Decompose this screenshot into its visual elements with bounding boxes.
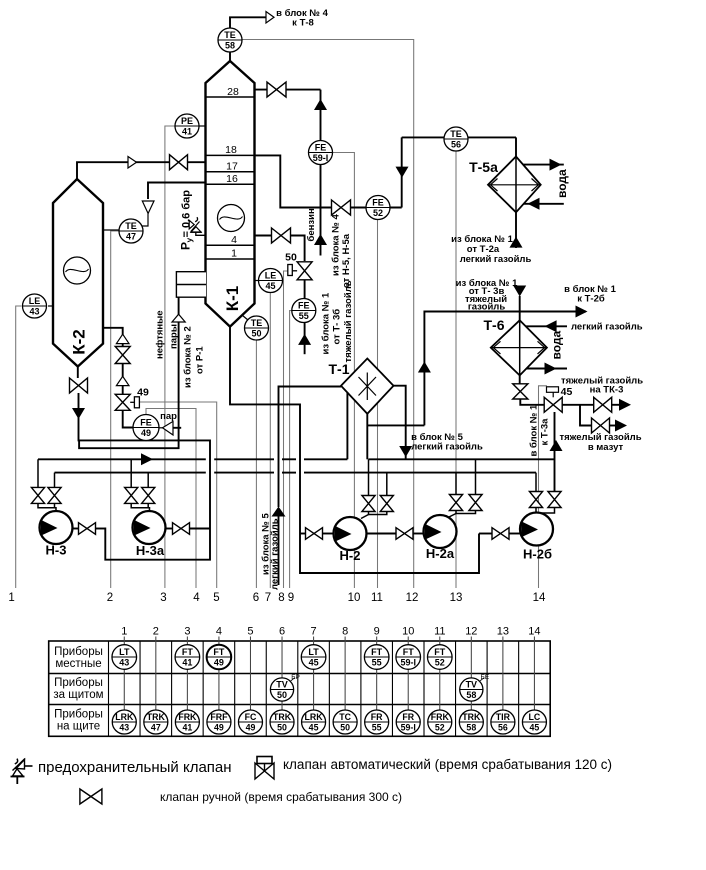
svg-text:FT: FT — [213, 647, 224, 657]
check valve on K-2 overhead line — [128, 157, 137, 169]
wire TE-56 line down to T-5a — [515, 137, 517, 156]
wire H-3 discharge with valve — [73, 528, 79, 530]
svg-text:LE: LE — [29, 296, 41, 306]
svg-text:18: 18 — [225, 144, 237, 156]
svg-text:FE: FE — [372, 197, 384, 207]
wire T-5a water in stub — [524, 203, 564, 205]
svg-text:FT: FT — [434, 647, 445, 657]
wire signal line 6 from TE-50 to table col 6 — [255, 340, 257, 588]
K-1 tray 4 line — [206, 244, 255, 246]
svg-text:6: 6 — [279, 626, 285, 638]
wire H-3a suction valves risers — [130, 459, 132, 487]
svg-text:58: 58 — [466, 690, 476, 700]
svg-text:TV: TV — [276, 679, 288, 689]
svg-text:TE: TE — [224, 30, 236, 40]
svg-text:FR: FR — [402, 712, 414, 722]
svg-text:ЕЕ: ЕЕ — [480, 674, 489, 681]
wire tray-18 side draw to FE-52 line — [255, 155, 402, 207]
valve 50 actuator — [288, 265, 293, 276]
svg-text:50: 50 — [285, 252, 297, 264]
svg-text:43: 43 — [119, 658, 129, 668]
svg-text:LRK: LRK — [305, 712, 324, 722]
wire H-2 right valve riser — [386, 473, 388, 496]
valve on TK-3 branch — [594, 397, 612, 412]
svg-text:FC: FC — [245, 712, 257, 722]
svg-text:бензин: бензин — [306, 208, 317, 241]
svg-text:предохранительный клапан: предохранительный клапан — [38, 759, 232, 776]
svg-text:клапан автоматический (время с: клапан автоматический (время срабатывани… — [283, 757, 612, 772]
svg-text:FE: FE — [298, 300, 310, 310]
valve above H-3 left — [31, 487, 44, 503]
wire H-3 suction valves risers — [37, 459, 39, 487]
svg-text:28: 28 — [227, 86, 239, 98]
svg-text:47: 47 — [151, 723, 161, 733]
arrow left water in T-5a — [528, 198, 540, 210]
svg-text:41: 41 — [182, 127, 192, 137]
wire check valve to TE-47 — [140, 214, 148, 227]
check valve up 1 on chain — [116, 334, 129, 343]
svg-text:к Т-2б: к Т-2б — [577, 294, 605, 305]
valve above H-3a right — [142, 487, 155, 503]
valve on mazut branch — [592, 418, 610, 433]
wire TE-56 horizontal line — [402, 136, 516, 138]
svg-text:Т-6: Т-6 — [484, 317, 505, 333]
pump H-2a — [424, 515, 457, 548]
svg-text:14: 14 — [533, 592, 546, 604]
instrument FE-49 — [133, 415, 159, 441]
pump H-2b — [520, 513, 553, 546]
wire mazut branch — [580, 405, 591, 426]
wire K-2 overhead to K-1 tray17 — [77, 162, 206, 179]
svg-text:11: 11 — [434, 626, 445, 638]
svg-text:16: 16 — [226, 173, 238, 185]
wire T-5a water out stub — [524, 164, 564, 166]
svg-text:8: 8 — [342, 626, 348, 638]
arrow down on K-2 bottoms — [72, 408, 85, 419]
arrow up on benzin riser (top) — [314, 99, 327, 110]
legend automatic valve symbol — [255, 763, 274, 779]
valve on chain — [115, 347, 130, 364]
K-1 safety valve symbol — [196, 232, 206, 235]
heat exchanger T-5a — [488, 157, 541, 213]
svg-text:1: 1 — [231, 248, 237, 260]
wire H-3a discharge to junction — [190, 528, 211, 530]
svg-text:тяжелый газойль: тяжелый газойль — [343, 280, 354, 362]
svg-text:местные: местные — [55, 658, 101, 670]
valve on tray-28 line — [267, 82, 286, 97]
svg-text:50: 50 — [340, 723, 350, 733]
svg-text:к Т-3а: к Т-3а — [540, 418, 551, 446]
svg-text:5: 5 — [213, 592, 219, 604]
valve right of H-3 — [79, 523, 96, 535]
wire H-2b discharge riser to valve 45 — [554, 412, 556, 492]
svg-text:TE: TE — [125, 221, 137, 231]
wire T-6 water in stub — [526, 325, 567, 327]
table instrument bubbles row 3 — [112, 710, 136, 734]
wire valve 49 to FE-49 — [123, 410, 133, 427]
svg-text:45: 45 — [530, 723, 540, 733]
svg-text:56: 56 — [498, 723, 508, 733]
svg-text:пары: пары — [169, 324, 180, 349]
svg-text:к Т-8: к Т-8 — [292, 18, 314, 29]
wire right header 1 — [369, 458, 556, 460]
wire K-2 bottoms to pump suction header — [79, 393, 211, 560]
wire riser to T-6 junction — [424, 312, 586, 426]
svg-text:LE: LE — [265, 270, 277, 280]
arrow export to block 4 (hollow) — [266, 12, 274, 24]
wire signal line 10 from FE-59-I to table col 10 — [333, 153, 354, 589]
wire signal line 13 from TE-56 to table col 13 — [455, 152, 457, 589]
valve on K-2 bottoms — [70, 378, 88, 393]
svg-text:легкий газойль: легкий газойль — [270, 518, 281, 590]
table instrument bubbles row 2 — [270, 678, 293, 701]
wire riser from TE-56 line down to FE-52 line — [401, 137, 403, 207]
arrow left water in T-6 — [545, 320, 557, 332]
check valve down on TE-47 branch — [142, 201, 154, 214]
svg-text:Т-5а: Т-5а — [469, 159, 498, 175]
wire valve to valve 45 junction — [520, 399, 544, 405]
svg-text:TIR: TIR — [496, 712, 511, 722]
arrow right water out T-5a — [550, 159, 562, 171]
wire T-1 right vertex to down-leg — [394, 386, 406, 450]
valve right of H-3a — [173, 523, 190, 535]
wire H-3a discharge with valve — [166, 528, 173, 530]
svg-text:Приборы: Приборы — [54, 646, 103, 658]
svg-text:55: 55 — [299, 311, 309, 321]
arrow down on riser to FE-52 — [396, 167, 409, 178]
svg-text:LT: LT — [119, 647, 130, 657]
column K-1 shell — [206, 61, 255, 327]
instrument TE-50 — [242, 315, 249, 321]
instrument LE-45 — [255, 280, 259, 282]
valve above H-3 right — [48, 487, 61, 503]
valve above H-2a left — [449, 495, 462, 511]
wire K-1 overhead to TE-58 and export — [230, 17, 266, 61]
svg-text:TV: TV — [466, 679, 478, 689]
wire signal line 9 from FE-55 to table col 9 — [290, 311, 292, 589]
wire T-6 bottom to valve — [519, 375, 521, 384]
svg-text:45: 45 — [561, 386, 573, 398]
wire H-2a valve manifold — [456, 511, 476, 514]
svg-text:за щитом: за щитом — [53, 689, 103, 701]
valve left of H-2b — [492, 528, 509, 540]
wire signal line 7 from LE-45 to table col 7 — [269, 293, 271, 588]
check valve up 2 on chain — [116, 376, 129, 385]
svg-text:К-1: К-1 — [223, 286, 242, 312]
K-1 tray 1 line — [206, 258, 255, 260]
svg-text:на щите: на щите — [57, 721, 100, 733]
wire H-3a valve manifold — [131, 503, 149, 511]
legend manual valve symbol — [80, 789, 102, 804]
svg-text:56: 56 — [451, 140, 461, 150]
svg-text:FR: FR — [371, 712, 383, 722]
wire K-2 shell to valve chain — [103, 328, 123, 335]
wire right header1 corner to H-2 left valve riser — [368, 459, 370, 495]
valve on tray4 feed — [272, 228, 291, 243]
wire T-1 lower-left edge to left header — [346, 392, 348, 459]
wire import from T-3v into T-6 top — [519, 296, 521, 320]
svg-text:TRK: TRK — [462, 712, 481, 722]
svg-text:К-2: К-2 — [70, 329, 89, 355]
svg-text:10: 10 — [348, 592, 361, 604]
check arrow hollow up on feed riser — [172, 314, 185, 322]
svg-text:FT: FT — [182, 647, 193, 657]
svg-text:3: 3 — [184, 626, 190, 638]
instrument FE-59-I — [309, 141, 333, 165]
wire K-2 bottoms line down — [77, 367, 79, 379]
svg-text:FE: FE — [315, 142, 327, 152]
svg-text:Приборы: Приборы — [54, 677, 103, 689]
wire H-2b suction valve risers — [535, 473, 537, 492]
wire K-1 tray4 feed line with valve — [255, 236, 305, 262]
svg-text:12: 12 — [465, 626, 477, 638]
svg-text:52: 52 — [435, 723, 445, 733]
svg-text:52: 52 — [435, 658, 445, 668]
wire chain segment 2 — [122, 364, 124, 377]
svg-text:9: 9 — [288, 592, 294, 604]
svg-text:55: 55 — [372, 658, 382, 668]
wire benzin riser — [320, 90, 322, 256]
valve above H-3a left — [125, 487, 138, 503]
wire neftyanye pary feed riser — [178, 297, 180, 314]
svg-text:LC: LC — [529, 712, 541, 722]
instrument FE-52 — [366, 196, 390, 220]
wire left header 2 — [55, 472, 206, 474]
svg-text:49: 49 — [246, 723, 256, 733]
arrow up into T-5a bottom — [510, 237, 523, 248]
svg-text:легкий газойль: легкий газойль — [460, 254, 532, 265]
svg-text:FRK: FRK — [178, 712, 197, 722]
valve below T-6 (vertical) — [513, 384, 528, 399]
svg-text:58: 58 — [225, 41, 235, 51]
K-1 stripping box on left side — [176, 272, 206, 298]
arrow right to TK-3 — [612, 404, 620, 406]
svg-text:49: 49 — [137, 387, 149, 399]
svg-text:из блока № 4: из блока № 4 — [331, 214, 342, 276]
wire signal line 8 from valve 50 actuator to table col 8 — [284, 271, 288, 588]
svg-text:вода: вода — [550, 330, 564, 359]
svg-text:8: 8 — [278, 592, 284, 604]
svg-text:на ТК-3: на ТК-3 — [590, 385, 624, 396]
wire signal line 4 from FE-49 to table col 4 — [146, 409, 196, 589]
svg-text:1: 1 — [8, 592, 14, 604]
svg-text:12: 12 — [406, 592, 419, 604]
svg-text:45: 45 — [309, 723, 319, 733]
K-1 tray 28 line — [206, 96, 255, 98]
svg-text:легкий газойль: легкий газойль — [411, 442, 483, 453]
wire left header 1 — [38, 458, 206, 460]
wire T-5a bottom feed — [515, 212, 517, 248]
svg-text:FRF: FRF — [210, 712, 228, 722]
svg-text:FT: FT — [403, 647, 414, 657]
svg-text:43: 43 — [29, 307, 39, 317]
svg-text:FE: FE — [140, 417, 152, 427]
wire chain segment 3 — [122, 386, 124, 395]
svg-text:газойль: газойль — [468, 302, 506, 313]
svg-text:58: 58 — [466, 723, 476, 733]
svg-text:41: 41 — [182, 723, 192, 733]
svg-text:45: 45 — [309, 658, 319, 668]
valve above H-2a right — [469, 495, 482, 511]
svg-text:7: 7 — [311, 626, 317, 638]
wire signal line 2 from TE-47 to table col 2 — [111, 231, 119, 588]
arrow right on left header 1 — [141, 453, 153, 465]
svg-text:59-I: 59-I — [401, 723, 416, 733]
svg-text:41: 41 — [182, 658, 192, 668]
wire K-1 bottoms to right pump train — [230, 327, 479, 573]
wire H-3 discharge elbow — [96, 528, 106, 530]
svg-text:от Р-1: от Р-1 — [195, 346, 206, 374]
svg-text:FT: FT — [371, 647, 382, 657]
svg-text:47: 47 — [126, 232, 136, 242]
svg-text:13: 13 — [450, 592, 463, 604]
arrow right water out T-6 — [545, 363, 557, 375]
instrument FE-55 — [292, 299, 316, 323]
svg-text:2: 2 — [153, 626, 159, 638]
svg-text:7: 7 — [265, 592, 271, 604]
wire H-2b valve manifold — [536, 508, 555, 514]
wire chain segment — [122, 344, 124, 348]
valve above H-2 left — [362, 496, 375, 512]
valve 49 actuator — [130, 401, 134, 403]
svg-text:Н-2: Н-2 — [340, 548, 361, 563]
svg-text:клапан ручной (время срабатыва: клапан ручной (время срабатывания 300 с) — [160, 790, 402, 804]
svg-text:50: 50 — [277, 723, 287, 733]
svg-text:РЕ: РЕ — [181, 116, 193, 126]
column K-2 shell — [53, 179, 103, 367]
table column borders — [108, 641, 110, 736]
svg-text:9: 9 — [374, 626, 380, 638]
valve above H-2b right — [548, 492, 561, 508]
svg-text:49: 49 — [214, 723, 224, 733]
wire valve45 to TK-3 branch — [562, 404, 594, 406]
svg-text:43: 43 — [119, 723, 129, 733]
svg-text:59-I: 59-I — [313, 153, 329, 163]
wire feed riser lower part — [79, 322, 179, 448]
wire signal line 14 from valve 45 actuator to table col 14 — [539, 386, 548, 588]
svg-text:2: 2 — [107, 592, 113, 604]
svg-text:4: 4 — [216, 626, 222, 638]
svg-text:из блока № 2: из блока № 2 — [183, 326, 194, 388]
wire H-2b feed valve line — [479, 533, 492, 535]
svg-text:вода: вода — [555, 169, 569, 198]
arrow up on benzin riser (bottom) — [314, 234, 327, 245]
instrument TE-47 — [119, 219, 143, 243]
svg-text:от Т- 3б: от Т- 3б — [332, 309, 343, 345]
arrow down to block 5 header — [399, 446, 412, 457]
svg-text:1: 1 — [121, 626, 127, 638]
wire signal line 11 from FE-52 to table col 11 — [377, 220, 379, 588]
svg-text:5: 5 — [247, 626, 253, 638]
svg-text:TC: TC — [339, 712, 351, 722]
arrow right to mazut — [610, 425, 617, 427]
wire H-2 to H-2a with valve — [367, 533, 396, 535]
table instrument bubbles row 1 — [112, 645, 137, 670]
svg-text:14: 14 — [528, 626, 540, 638]
svg-text:49: 49 — [214, 658, 224, 668]
wire FE-55 source stub — [304, 323, 306, 355]
pump H-2 — [334, 517, 367, 550]
instrument TE-58 — [218, 28, 242, 52]
svg-text:TRK: TRK — [147, 712, 166, 722]
wire steam stub with hollow arrow — [172, 427, 181, 429]
svg-text:45: 45 — [265, 281, 275, 291]
svg-text:59-I: 59-I — [400, 658, 416, 668]
valve left of H-2 — [306, 528, 323, 540]
K-1 tray 17 line — [206, 171, 255, 173]
wire signal line 5 from valve 49 actuator to table col 5 — [140, 402, 217, 588]
K-2 internal circulation symbol — [64, 257, 91, 284]
instrument PE-41 — [199, 125, 206, 127]
svg-text:нефтяные: нефтяные — [155, 310, 166, 359]
table cell signal lines — [123, 641, 125, 645]
wire second feed into K-1 tray16 slot — [148, 183, 206, 200]
valve 49 (automatic) on chain — [115, 394, 130, 410]
svg-text:4: 4 — [193, 592, 200, 604]
svg-text:легкий газойль: легкий газойль — [571, 322, 643, 333]
arrow up on FE-55 line — [298, 334, 311, 345]
instrument TE-56 — [444, 127, 468, 151]
svg-text:пар: пар — [160, 411, 177, 422]
arrow up on mazut riser — [550, 440, 563, 451]
pump H-3a — [133, 511, 166, 544]
svg-text:LRK: LRK — [115, 712, 134, 722]
legend safety valve symbol — [16, 760, 24, 770]
svg-text:TRK: TRK — [273, 712, 292, 722]
wire signal line 1 from LE-43 to table col 1 — [16, 306, 22, 588]
K-1 tray 16 line — [206, 183, 255, 185]
svg-text:Н-3а: Н-3а — [136, 543, 165, 558]
wire T-1 outlet cross link — [367, 424, 424, 426]
table frame — [49, 641, 551, 736]
valve 50 (vertical, automatic) — [297, 262, 312, 280]
svg-text:от Н-5, Н-5а: от Н-5, Н-5а — [341, 233, 352, 288]
valve between H-2 and H-2a — [396, 528, 413, 540]
svg-text:50: 50 — [277, 690, 287, 700]
wire legkiy gazoil from block 5 riser to T-1 — [279, 387, 342, 508]
valve 45 with actuator — [544, 397, 562, 412]
wire signal line 12 from TE-58 to table col 12 — [242, 40, 414, 589]
valve on FE-52 line — [332, 200, 351, 215]
svg-text:в блок № 1: в блок № 1 — [529, 404, 540, 456]
heat exchanger T-6 — [491, 320, 547, 375]
svg-text:17: 17 — [226, 161, 238, 173]
arrow up on riser to T-6 — [418, 362, 431, 373]
wire signal line 3 from PE-41 to table col 3 — [165, 126, 175, 588]
svg-text:50: 50 — [251, 329, 261, 339]
valve above H-2b left — [529, 492, 542, 508]
svg-text:52: 52 — [373, 208, 383, 218]
wire H-2a suction valve risers — [455, 473, 457, 495]
svg-text:LT: LT — [308, 647, 319, 657]
svg-text:= 0.6 бар: = 0.6 бар — [181, 190, 193, 238]
wire H-2 valve manifold — [369, 512, 387, 515]
arrow right export to block 1 k T-2b — [576, 306, 588, 318]
instrument LE-43 — [48, 305, 53, 307]
arrow down import T-6 — [513, 286, 526, 297]
valve on K-2 overhead line — [170, 155, 188, 170]
svg-text:4: 4 — [231, 234, 237, 246]
svg-text:FRK: FRK — [431, 712, 450, 722]
svg-text:11: 11 — [371, 592, 383, 604]
wire T-1 bottom vertex down to right header — [366, 414, 368, 460]
svg-text:TE: TE — [251, 318, 263, 328]
wire H-3 valve manifold — [38, 503, 56, 511]
wire H-2 feed valve from K-1 bottoms drop — [300, 533, 305, 535]
svg-text:из блока № 1: из блока № 1 — [321, 292, 332, 354]
svg-text:TE: TE — [450, 129, 462, 139]
K-1 tray 18 line — [206, 154, 255, 156]
